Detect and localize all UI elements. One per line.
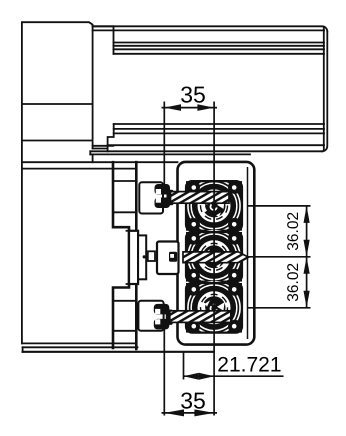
column rung 3	[113, 211, 136, 213]
plug P1 ferrule	[167, 190, 174, 205]
arrowhead top35 left	[164, 104, 181, 111]
rail bottom bar top edge	[114, 123, 324, 125]
rail top bar line 5	[114, 48, 325, 50]
rail top bar bottom edge	[114, 53, 325, 55]
base plate left cap	[89, 151, 91, 154]
rail bottom bar line 3	[114, 132, 324, 134]
rail bottom bar left edge step	[108, 124, 114, 151]
connector U3 flange (bottom)	[186, 281, 242, 335]
plug P1 upper claw	[155, 184, 171, 195]
connector panel plate	[178, 162, 255, 345]
plug housing P3 (bottom)	[138, 301, 163, 331]
step from body to rail	[93, 25, 114, 27]
column rung 6	[113, 300, 136, 302]
plug P1 lower claw	[155, 198, 171, 209]
plug stack P2 rect B	[138, 235, 146, 279]
arrowhead 21.721 left	[184, 373, 199, 380]
svg-text:36.02: 36.02	[285, 212, 302, 251]
plug stack P2 small dot	[143, 255, 146, 258]
bracket column left bar	[113, 162, 129, 348]
rail right end cap outer line	[322, 32, 327, 152]
column rung 2	[113, 180, 136, 182]
bottom strip upper line	[23, 346, 138, 348]
plug P3 lower claw	[154, 319, 170, 330]
motor body division line upper	[22, 103, 93, 105]
cable gland rod R3 (bottom, hatched)	[170, 311, 231, 323]
arrowhead bottom35 left	[164, 409, 184, 416]
motor body right edge lower segment	[92, 154, 94, 162]
bottom strip left cap	[22, 347, 24, 352]
svg-text:35: 35	[180, 81, 206, 107]
extension line 36.02 bottom	[247, 307, 311, 309]
plug P3 ferrule	[166, 310, 173, 325]
cable gland rod R2 (middle, hatched, pointed tip)	[183, 252, 249, 263]
column rung 8	[113, 342, 136, 344]
centerline through connectors	[213, 102, 215, 416]
svg-text:36.02: 36.02	[285, 263, 302, 302]
rail top bar line 2	[93, 29, 324, 31]
extension line 36.02 middle	[249, 256, 311, 258]
plug housing P1 (top)	[139, 182, 163, 213]
plug P2 socket clevis	[169, 252, 177, 262]
arrowhead 36.02 bottom (down)	[304, 291, 310, 308]
rail right end cap inner line	[323, 28, 325, 151]
cable gland rod R1 (top, hatched)	[171, 192, 230, 204]
panel inner right line	[247, 167, 249, 339]
arrowhead 36.02 middle up	[304, 257, 310, 274]
motor body division line lower	[22, 140, 93, 142]
dimension line bottom 35	[162, 412, 218, 414]
rail top bar line 3	[114, 42, 325, 44]
plug P3 upper claw	[154, 304, 170, 315]
bracket strip upper line	[22, 161, 178, 163]
plug stack P2 notch square	[148, 251, 155, 261]
rail top bar outline	[93, 26, 328, 54]
column rung 7	[113, 330, 136, 332]
arrowhead 36.02 top (up)	[304, 206, 310, 223]
step box below body	[93, 146, 114, 149]
base plate bottom line	[90, 153, 250, 155]
svg-text:21.721: 21.721	[217, 353, 281, 376]
extension line left of top 35 dim	[163, 102, 165, 185]
column rung 5	[127, 283, 137, 285]
bottom strip lower line	[23, 351, 214, 353]
motor body outline	[22, 22, 93, 343]
dimension line 21.721	[184, 375, 284, 377]
arrowhead top35 right	[197, 104, 214, 111]
connector U2 flange (middle)	[186, 230, 242, 284]
connector U1 flange (top)	[186, 179, 242, 233]
bracket strip lower line	[22, 168, 136, 170]
column rung 4	[127, 230, 137, 232]
rail bottom bar line 2	[114, 128, 324, 130]
extension line 36.02 top	[247, 205, 311, 207]
extension line left segment for bottom 35 dim	[163, 327, 165, 415]
rail bottom bar line 4	[108, 144, 324, 146]
arrowhead 21.721 right	[199, 373, 214, 380]
dimension line 36.02 vertical	[306, 206, 308, 308]
rail top bar line 4	[114, 45, 325, 47]
arrowhead bottom35 right	[194, 409, 214, 416]
base plate top line	[90, 150, 322, 152]
plug stack P2 rect A	[129, 231, 138, 284]
motor body bottom edge	[22, 342, 113, 344]
plug stack P2 rect C	[157, 242, 179, 275]
bracket column right bar	[135, 162, 138, 349]
dimension line top 35	[162, 107, 218, 109]
arrowhead 36.02 middle down	[304, 240, 310, 257]
svg-text:35: 35	[180, 387, 206, 413]
extension line 21.721 left	[183, 353, 185, 380]
